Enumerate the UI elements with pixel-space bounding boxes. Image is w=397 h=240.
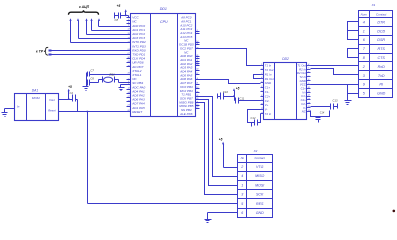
- svg-text:DD2: DD2: [282, 57, 289, 61]
- svg-text:SCK: SCK: [256, 193, 264, 197]
- svg-text:15: 15: [308, 106, 310, 108]
- svg-text:DTR: DTR: [377, 20, 385, 24]
- svg-text:9: 9: [261, 99, 262, 101]
- svg-text:T2 Out: T2 Out: [265, 68, 274, 72]
- svg-text:C11: C11: [239, 97, 244, 101]
- svg-text:V-: V-: [265, 108, 268, 112]
- svg-text:In: In: [17, 104, 20, 108]
- svg-text:1: 1: [241, 183, 243, 187]
- svg-text:C6: C6: [90, 77, 94, 81]
- svg-text:4: 4: [308, 63, 309, 66]
- svg-text:21: 21: [127, 42, 130, 44]
- svg-text:6: 6: [241, 211, 243, 215]
- svg-text:+5: +5: [117, 4, 121, 8]
- svg-text:4: 4: [363, 20, 365, 24]
- svg-text:5: 5: [241, 202, 243, 206]
- svg-text:MC62: MC62: [32, 96, 40, 100]
- svg-text:14: 14: [308, 101, 310, 104]
- svg-text:Reset: Reset: [48, 109, 56, 113]
- svg-text:3: 3: [261, 73, 262, 75]
- svg-text:Contact: Contact: [255, 156, 266, 160]
- svg-text:DSR: DSR: [377, 38, 385, 42]
- svg-text:8: 8: [308, 79, 309, 81]
- svg-text:ZQ1: ZQ1: [108, 72, 115, 76]
- svg-text:+5: +5: [68, 85, 72, 89]
- svg-text:21: 21: [195, 43, 198, 45]
- svg-text:MOSI: MOSI: [255, 183, 264, 187]
- svg-text:2: 2: [362, 65, 365, 69]
- svg-text:Vout: Vout: [49, 98, 55, 102]
- svg-text:CTS: CTS: [378, 56, 386, 60]
- svg-text:C1+: C1+: [265, 86, 271, 90]
- svg-text:10: 10: [261, 104, 263, 106]
- svg-text:C12: C12: [251, 116, 256, 120]
- svg-text:RI: RI: [379, 83, 383, 87]
- svg-text:CPU: CPU: [160, 20, 168, 24]
- svg-text:C2: C2: [70, 91, 74, 95]
- svg-text:C2+: C2+: [265, 94, 271, 98]
- svg-text:9: 9: [308, 83, 309, 85]
- svg-text:к АЦП: к АЦП: [79, 5, 90, 9]
- svg-text:1: 1: [363, 29, 365, 33]
- svg-text:C7: C7: [90, 68, 94, 72]
- svg-text:10: 10: [308, 87, 310, 89]
- svg-text:DA1: DA1: [32, 89, 39, 93]
- svg-text:C14: C14: [320, 112, 325, 115]
- svg-text:4: 4: [241, 174, 243, 178]
- svg-text:GND: GND: [256, 211, 264, 215]
- svg-text:MISO: MISO: [255, 174, 264, 178]
- svg-text:2: 2: [240, 165, 243, 169]
- svg-text:13: 13: [308, 98, 310, 100]
- svg-text:16: 16: [308, 110, 310, 112]
- svg-text:12: 12: [308, 95, 310, 97]
- svg-text:1: 1: [261, 64, 262, 66]
- svg-text:5: 5: [308, 68, 309, 70]
- svg-text:9: 9: [363, 83, 365, 87]
- svg-text:GND: GND: [377, 92, 386, 96]
- svg-text:DCD: DCD: [377, 29, 385, 33]
- svg-text:Х2: Х2: [253, 149, 258, 153]
- svg-text:Num: Num: [361, 13, 368, 17]
- svg-text:6: 6: [308, 72, 309, 74]
- svg-text:11: 11: [261, 108, 263, 110]
- svg-text:2: 2: [260, 68, 262, 70]
- svg-text:к ТР: к ТР: [36, 50, 44, 54]
- svg-text:RES: RES: [256, 202, 264, 206]
- svg-text:VTG: VTG: [256, 165, 264, 169]
- svg-text:+5: +5: [219, 138, 223, 142]
- svg-text:+5: +5: [236, 86, 240, 90]
- svg-text:C10: C10: [223, 90, 229, 94]
- svg-text:T1 In: T1 In: [265, 64, 272, 68]
- svg-text:4: 4: [197, 77, 198, 80]
- svg-text:8: 8: [261, 95, 262, 97]
- svg-text:R1 Out: R1 Out: [265, 77, 274, 81]
- svg-text:6: 6: [261, 86, 262, 88]
- svg-text:ALE PD6: ALE PD6: [179, 112, 193, 116]
- svg-text:RTS: RTS: [378, 47, 386, 51]
- svg-text:Х1: Х1: [371, 3, 376, 7]
- svg-text:5: 5: [261, 82, 262, 84]
- svg-text:Contact: Contact: [376, 13, 387, 17]
- svg-text:3: 3: [241, 193, 243, 197]
- svg-text:R1 In: R1 In: [265, 72, 272, 76]
- svg-text:C13: C13: [333, 98, 338, 102]
- svg-text:11: 11: [196, 83, 198, 85]
- svg-text:12: 12: [261, 112, 263, 114]
- svg-text:DD1: DD1: [160, 7, 167, 11]
- svg-text:T2 In: T2 In: [265, 112, 272, 116]
- svg-text:24: 24: [127, 48, 130, 51]
- svg-text:4: 4: [261, 76, 262, 79]
- svg-text:GND: GND: [265, 81, 271, 85]
- svg-text:11: 11: [308, 91, 310, 93]
- svg-text:TxD: TxD: [378, 74, 385, 78]
- svg-text:RxD: RxD: [378, 65, 386, 69]
- svg-text:14: 14: [128, 91, 130, 94]
- svg-text:C8: C8: [115, 18, 119, 22]
- svg-text:11: 11: [128, 88, 130, 90]
- svg-text:V+: V+: [265, 103, 269, 107]
- svg-text:C2-: C2-: [265, 99, 270, 103]
- svg-text:RESET: RESET: [132, 110, 143, 114]
- svg-text:C1-: C1-: [265, 90, 270, 94]
